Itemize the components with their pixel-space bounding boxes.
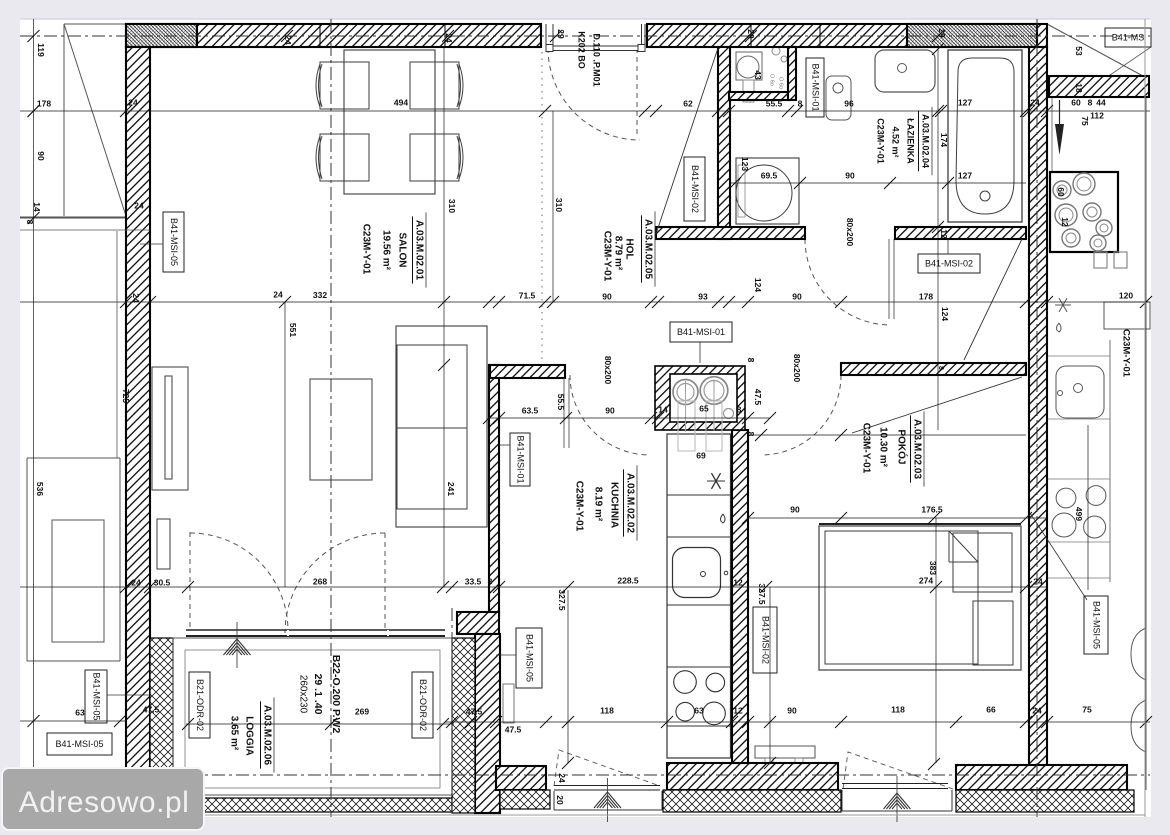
svg-text:124: 124 (753, 278, 763, 292)
svg-text:96: 96 (844, 98, 854, 108)
svg-text:112: 112 (1090, 110, 1104, 120)
svg-text:24: 24 (1032, 705, 1042, 715)
svg-text:A.03.M.02.02: A.03.M.02.02 (624, 473, 635, 533)
svg-text:B41-MSI-05: B41-MSI-05 (525, 634, 535, 682)
svg-text:124: 124 (940, 307, 950, 321)
svg-text:69: 69 (696, 450, 706, 460)
svg-text:127: 127 (958, 170, 972, 180)
svg-text:HOL: HOL (623, 238, 634, 259)
svg-text:ŁAZIENKA: ŁAZIENKA (906, 118, 916, 164)
svg-text:4.52 m²: 4.52 m² (891, 126, 901, 157)
svg-text:B41-MSI-01: B41-MSI-01 (516, 435, 526, 483)
svg-text:24: 24 (134, 200, 144, 210)
svg-text:24: 24 (444, 33, 454, 43)
svg-text:24: 24 (283, 35, 293, 45)
svg-text:LOGGIA: LOGGIA (243, 716, 254, 755)
svg-text:93: 93 (698, 291, 708, 301)
svg-text:A.03.M.02.06: A.03.M.02.06 (261, 705, 272, 765)
svg-text:8: 8 (25, 220, 35, 225)
svg-text:12: 12 (939, 229, 949, 239)
svg-text:90: 90 (36, 151, 46, 161)
svg-text:43: 43 (753, 70, 763, 80)
svg-text:310: 310 (447, 199, 457, 213)
svg-text:90: 90 (845, 170, 855, 180)
svg-text:47.5: 47.5 (753, 389, 763, 406)
svg-text:SALON: SALON (396, 233, 407, 268)
svg-text:268: 268 (313, 576, 327, 586)
svg-text:80x200: 80x200 (603, 356, 613, 385)
svg-text:C23M-Y-01: C23M-Y-01 (573, 481, 584, 532)
svg-text:8.19 m²: 8.19 m² (592, 487, 603, 522)
svg-text:176.5: 176.5 (921, 504, 943, 514)
svg-text:118: 118 (891, 704, 905, 714)
svg-text:63: 63 (694, 705, 704, 715)
svg-text:B41-MS: B41-MS (1112, 32, 1145, 42)
svg-text:80x200: 80x200 (792, 354, 802, 383)
svg-text:63: 63 (75, 707, 85, 717)
svg-text:B41-MSI-02: B41-MSI-02 (690, 165, 700, 213)
svg-text:12: 12 (1060, 217, 1070, 227)
svg-text:536: 536 (35, 482, 45, 496)
svg-text:383: 383 (928, 561, 938, 575)
svg-text:29: 29 (556, 29, 566, 39)
svg-text:KUCHNIA: KUCHNIA (608, 482, 619, 528)
svg-text:65: 65 (699, 403, 709, 413)
svg-text:60: 60 (1071, 97, 1081, 107)
svg-text:8.79 m²: 8.79 m² (612, 236, 623, 271)
svg-text:62: 62 (683, 98, 693, 108)
svg-text:71.5: 71.5 (519, 290, 536, 300)
svg-text:8: 8 (488, 576, 493, 586)
svg-text:127: 127 (958, 97, 972, 107)
svg-text:24: 24 (131, 293, 141, 303)
svg-text:60: 60 (1056, 187, 1066, 197)
svg-text:C23M-Y-01: C23M-Y-01 (860, 423, 871, 474)
svg-text:178: 178 (919, 291, 933, 301)
svg-text:47.5: 47.5 (505, 724, 522, 734)
svg-text:8: 8 (737, 404, 742, 414)
svg-text:14: 14 (32, 202, 42, 212)
svg-text:8: 8 (1088, 97, 1093, 107)
svg-text:24: 24 (273, 289, 283, 299)
svg-text:551: 551 (288, 323, 298, 337)
svg-text:75: 75 (1082, 704, 1092, 714)
svg-text:B41-MSI-05: B41-MSI-05 (169, 218, 179, 266)
svg-text:178: 178 (37, 98, 51, 108)
svg-text:274: 274 (919, 575, 933, 585)
svg-text:O 6o: O 6o (769, 74, 775, 86)
svg-text:24: 24 (557, 773, 567, 783)
svg-text:53: 53 (1074, 46, 1084, 56)
svg-text:69.5: 69.5 (761, 170, 778, 180)
svg-text:8: 8 (746, 358, 756, 363)
svg-text:A.03.M.02.04: A.03.M.02.04 (921, 114, 931, 168)
svg-text:228.5: 228.5 (617, 575, 639, 585)
svg-text:327.5: 327.5 (557, 589, 567, 611)
svg-text:90: 90 (790, 504, 800, 514)
svg-text:47.5: 47.5 (143, 704, 160, 714)
svg-text:269: 269 (355, 706, 369, 716)
svg-text:B21-ODR-02: B21-ODR-02 (418, 679, 428, 731)
svg-text:C23M-Y-01: C23M-Y-01 (876, 118, 886, 164)
svg-text:A.03.M.02.01: A.03.M.02.01 (413, 220, 424, 280)
svg-text:8: 8 (798, 98, 803, 108)
svg-text:499: 499 (1074, 507, 1084, 521)
svg-text:24: 24 (131, 577, 141, 587)
svg-text:327.5: 327.5 (757, 583, 767, 605)
svg-text:20: 20 (555, 795, 565, 805)
svg-text:120: 120 (1119, 290, 1133, 300)
svg-text:B41-MSI-01: B41-MSI-01 (677, 327, 725, 337)
svg-text:332: 332 (313, 290, 327, 300)
svg-text:B41-MSI-02: B41-MSI-02 (761, 616, 771, 664)
svg-text:B41-MSI-05: B41-MSI-05 (92, 672, 102, 720)
svg-text:8: 8 (746, 432, 756, 437)
svg-text:33.5: 33.5 (465, 576, 482, 586)
svg-text:POKÓJ: POKÓJ (895, 429, 908, 464)
svg-text:44: 44 (1096, 97, 1106, 107)
svg-text:90: 90 (792, 291, 802, 301)
svg-text:63.5: 63.5 (522, 405, 539, 415)
svg-text:24: 24 (1030, 97, 1040, 107)
svg-text:55.5: 55.5 (556, 394, 566, 411)
svg-text:118: 118 (600, 705, 614, 715)
svg-text:B41-MSI-01: B41-MSI-01 (811, 63, 821, 111)
svg-text:119: 119 (36, 43, 46, 57)
svg-text:D.110 .P.M01: D.110 .P.M01 (592, 33, 602, 86)
svg-text:A.03.M.02.05: A.03.M.02.05 (642, 219, 653, 279)
svg-text:12: 12 (733, 577, 743, 587)
svg-text:75: 75 (1080, 116, 1090, 126)
svg-text:12: 12 (733, 705, 743, 715)
svg-text:B41-MSI-05: B41-MSI-05 (1092, 601, 1102, 649)
svg-text:C23M-Y-01: C23M-Y-01 (360, 224, 371, 275)
svg-text:C23M-Y-01: C23M-Y-01 (1120, 329, 1131, 378)
svg-text:29 .1 .40: 29 .1 .40 (312, 674, 324, 715)
svg-text:14: 14 (658, 404, 668, 414)
svg-text:K202 BO: K202 BO (577, 31, 587, 69)
svg-text:29: 29 (746, 29, 756, 39)
svg-text:174: 174 (939, 133, 949, 147)
svg-text:90: 90 (602, 291, 612, 301)
svg-text:10.30 m²: 10.30 m² (877, 427, 888, 468)
svg-text:Adresowo.pl: Adresowo.pl (19, 786, 190, 819)
svg-text:C23M-Y-01: C23M-Y-01 (601, 231, 612, 282)
svg-text:30.5: 30.5 (154, 577, 171, 587)
svg-text:66: 66 (986, 704, 996, 714)
svg-text:3.65 m²: 3.65 m² (228, 716, 239, 751)
svg-text:90: 90 (787, 705, 797, 715)
svg-text:18: 18 (1074, 83, 1084, 93)
svg-text:260x230: 260x230 (297, 675, 308, 714)
svg-text:A.03.M.02.03: A.03.M.02.03 (911, 419, 922, 479)
svg-text:725: 725 (121, 389, 131, 403)
svg-text:O 6o: O 6o (778, 77, 784, 89)
svg-text:29: 29 (937, 28, 947, 38)
svg-text:B22-O.200 P.W2: B22-O.200 P.W2 (330, 655, 342, 734)
svg-text:123: 123 (740, 157, 750, 171)
svg-text:90: 90 (605, 405, 615, 415)
svg-text:310: 310 (554, 198, 564, 212)
svg-text:55.5: 55.5 (766, 98, 783, 108)
svg-text:19.56 m²: 19.56 m² (380, 230, 391, 271)
svg-text:B41-MSI-05: B41-MSI-05 (55, 739, 103, 749)
svg-text:24: 24 (128, 97, 138, 107)
svg-text:24: 24 (1033, 576, 1043, 586)
svg-text:B41-MSI-02: B41-MSI-02 (925, 258, 973, 268)
svg-text:47.5: 47.5 (466, 706, 483, 716)
svg-text:241: 241 (446, 482, 456, 496)
svg-text:494: 494 (394, 97, 408, 107)
svg-text:80x200: 80x200 (845, 218, 855, 247)
svg-text:B21-ODR-02: B21-ODR-02 (195, 679, 205, 731)
